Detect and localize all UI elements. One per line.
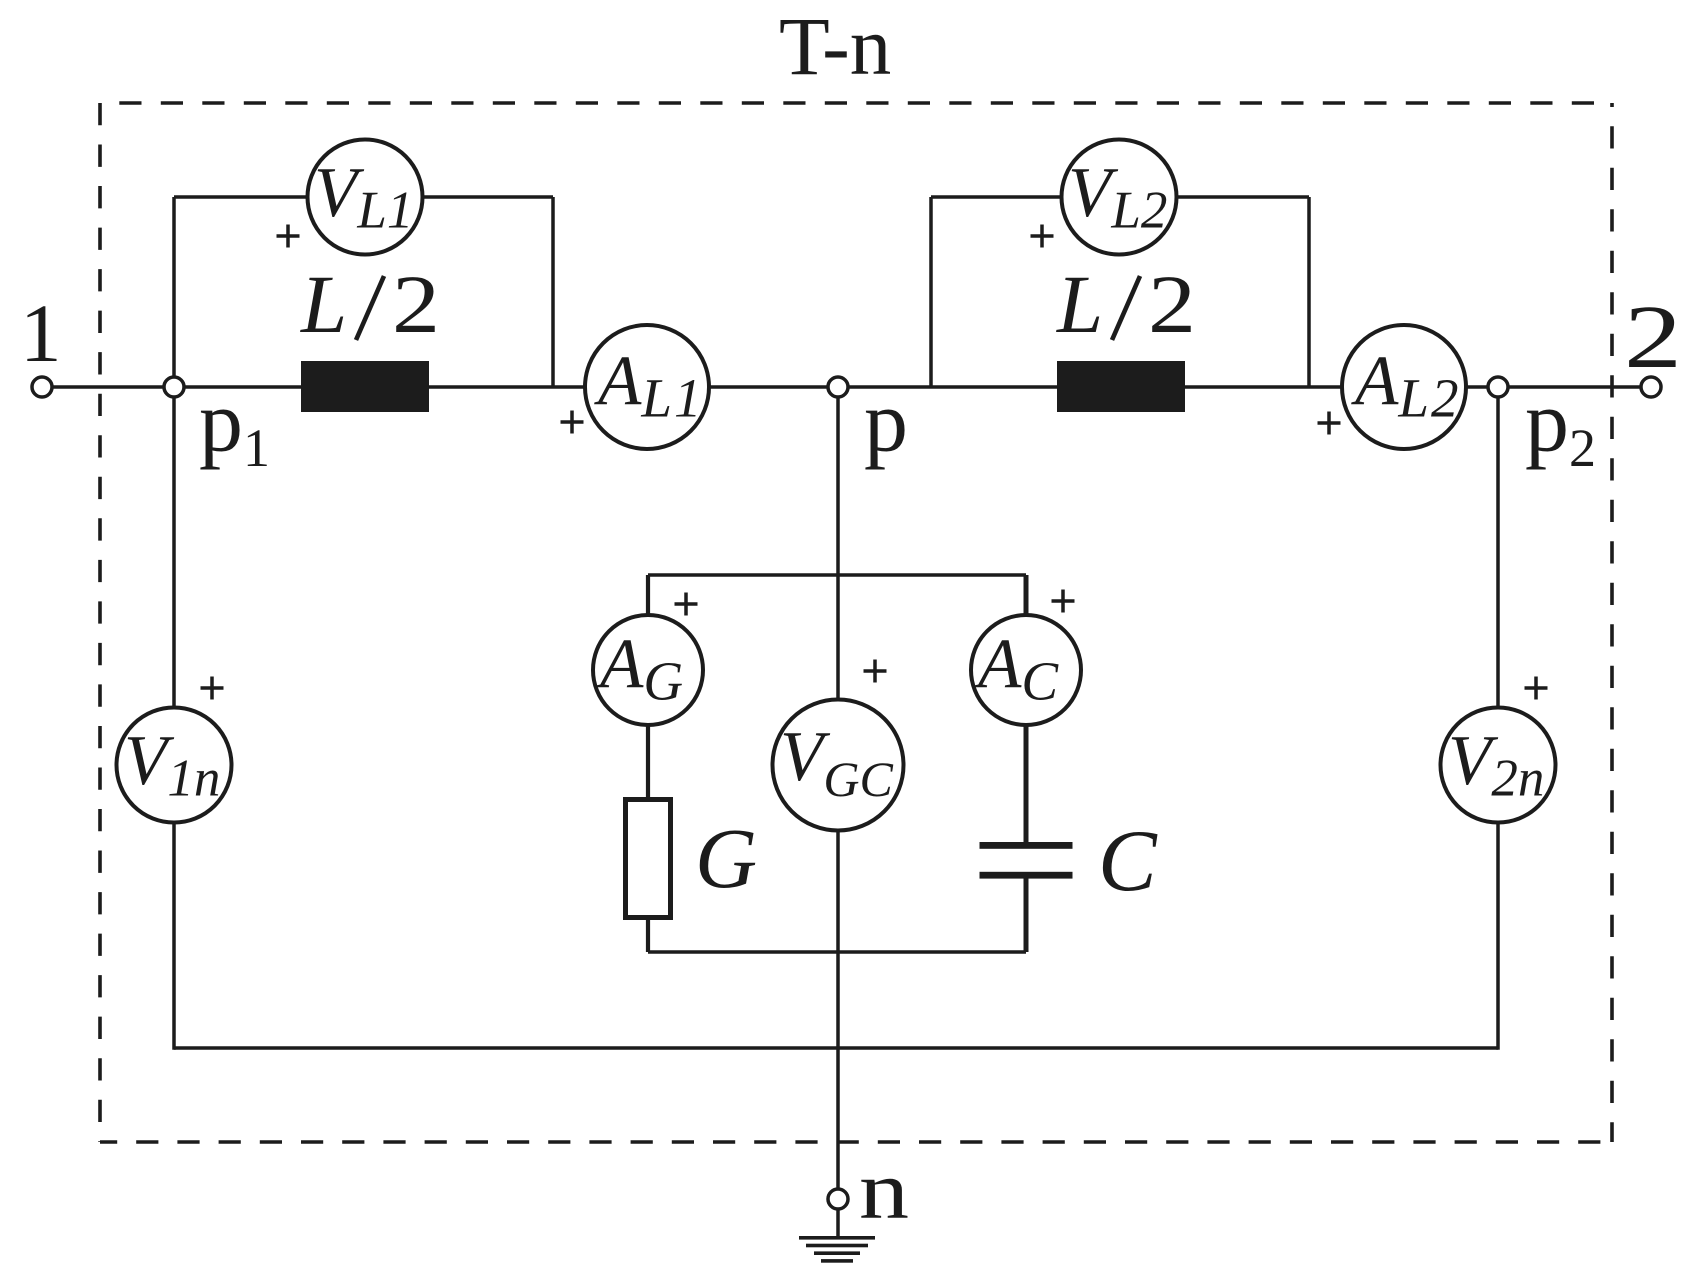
svg-text:G: G xyxy=(695,810,757,906)
voltmeter VGC body xyxy=(773,700,904,831)
polarity + of VL1 xyxy=(277,225,300,248)
ammeter AL2 body xyxy=(1342,325,1466,449)
svg-text:1: 1 xyxy=(20,287,62,379)
label L/2 (right inductor): slash xyxy=(1112,276,1140,340)
svg-text:C: C xyxy=(1098,813,1158,910)
ground bar 4 xyxy=(821,1259,853,1263)
svg-text:p: p xyxy=(864,374,908,471)
svg-text:L: L xyxy=(300,258,347,350)
ground bar 1 xyxy=(799,1236,875,1240)
polarity + of V2n xyxy=(1525,677,1548,700)
terminal 2 xyxy=(1641,377,1661,397)
voltmeter V1n body xyxy=(117,708,232,823)
polarity + of AL2 xyxy=(1318,412,1341,435)
node p xyxy=(828,377,848,397)
wire: main horizontal rail from terminal 1 to terminal 2 xyxy=(53,385,1640,389)
polarity + of AC xyxy=(1052,590,1075,613)
wire: AG branch vertical xyxy=(646,575,650,799)
ground bar 2 xyxy=(806,1244,868,1248)
terminal 1 xyxy=(32,377,52,397)
ground bar 3 xyxy=(814,1251,860,1255)
voltmeter V2n body xyxy=(1441,708,1556,823)
ammeter AC body xyxy=(971,615,1081,725)
ammeter AG body xyxy=(593,615,703,725)
polarity + of VGC xyxy=(864,660,887,683)
polarity + of AL1 xyxy=(561,411,584,434)
inductor L/2 (right) body xyxy=(1057,361,1185,412)
wire: GC block bottom connector xyxy=(648,950,1026,954)
resistor G body xyxy=(626,800,671,918)
wire: capacitor C to bottom connector xyxy=(1024,878,1029,952)
wire: bottom rail xyxy=(174,1046,1498,1050)
wire: left branch p1 down through V1n to bottom rail xyxy=(172,387,176,1050)
dashed enclosure box T-n : bottom border xyxy=(100,1140,1612,1144)
svg-text:n: n xyxy=(859,1144,909,1236)
voltmeter VL1 body xyxy=(308,140,423,255)
svg-text:L: L xyxy=(1056,258,1103,350)
node p1 xyxy=(164,377,184,397)
wire: center branch from node p through VGC down to ground xyxy=(836,387,840,1238)
svg-text:T-n: T-n xyxy=(779,0,891,92)
wire: VL1 top bridge xyxy=(174,195,553,199)
polarity + of V1n xyxy=(201,677,224,700)
wire: VL2 left leg xyxy=(929,197,933,387)
voltmeter VL2 body xyxy=(1062,140,1177,255)
ammeter AL1 body xyxy=(585,325,709,449)
wire: VL2 top bridge xyxy=(931,195,1309,199)
node n xyxy=(828,1189,848,1209)
wire: VL1 left leg from p1 up xyxy=(172,197,176,387)
capacitor C top plate xyxy=(980,842,1073,849)
wire: resistor G to bottom connector xyxy=(646,918,650,952)
capacitor C bottom plate xyxy=(980,872,1073,879)
dashed enclosure box T-n : right border xyxy=(1610,103,1614,1142)
inductor L/2 (left) body xyxy=(301,361,429,412)
svg-text:2: 2 xyxy=(392,258,440,350)
wire: GC block top connector xyxy=(648,573,1026,577)
polarity + of AG xyxy=(675,593,698,616)
node p2 xyxy=(1488,377,1508,397)
dashed enclosure box T-n : top border xyxy=(100,101,1612,105)
wire: VL2 right leg down to main rail xyxy=(1307,197,1311,387)
dashed enclosure box T-n : left border xyxy=(98,103,102,1142)
svg-text:2: 2 xyxy=(1148,258,1196,350)
wire: AC branch vertical xyxy=(1024,575,1029,843)
wire: right branch p2 down through V2n to bottom rail xyxy=(1496,387,1500,1050)
svg-text:2: 2 xyxy=(1624,288,1682,387)
label L/2 (left inductor): slash xyxy=(356,276,384,340)
wire: VL1 right leg down to main rail xyxy=(551,197,555,387)
polarity + of VL2 xyxy=(1031,225,1054,248)
